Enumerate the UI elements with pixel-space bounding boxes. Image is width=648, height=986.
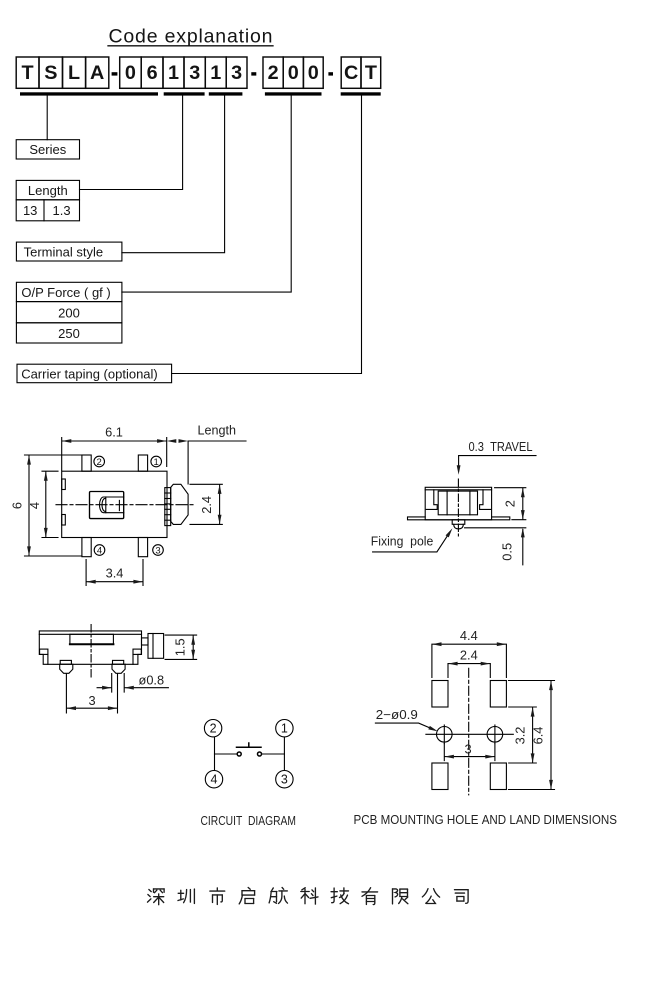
svg-text:0: 0 (308, 62, 319, 84)
code box 0 (283, 57, 303, 88)
svg-text:0.3 TRAVEL: 0.3 TRAVEL (469, 439, 533, 454)
front view inner wall right (132, 654, 134, 664)
terminal dome 1 (60, 660, 73, 673)
top view left wall slot lower (62, 515, 66, 526)
front view knob (142, 634, 164, 659)
dimension 3.2 (509, 707, 537, 763)
switch blade (237, 743, 262, 747)
hole 1 (437, 725, 453, 744)
svg-text:0.5: 0.5 (500, 543, 515, 561)
contact left (237, 752, 241, 756)
circuit pin 3 (276, 771, 293, 788)
svg-text:T: T (22, 62, 34, 84)
pusher outline (90, 492, 124, 519)
code box 3 (226, 57, 247, 88)
terminal pin 4 pad (82, 538, 91, 557)
dimension 6 (10, 455, 83, 556)
dimension 4.4 (432, 628, 507, 678)
svg-text:250: 250 (58, 326, 80, 341)
label Terminal style (16, 242, 122, 261)
code box 2 (263, 57, 283, 88)
code dash separator (251, 72, 256, 75)
svg-text:4.4: 4.4 (460, 628, 478, 643)
svg-text:1: 1 (281, 722, 288, 736)
pin number 3 (153, 545, 164, 557)
dimension 2.4 knob (190, 484, 222, 524)
svg-text:6: 6 (10, 502, 25, 509)
dimension 0.5 (465, 528, 526, 565)
svg-text:200: 200 (58, 305, 80, 320)
svg-text:4: 4 (211, 773, 218, 787)
svg-text:3: 3 (231, 62, 242, 84)
pad top-left (432, 681, 448, 708)
underline bar series (20, 92, 158, 95)
svg-text:A: A (90, 62, 104, 84)
svg-text:4: 4 (97, 545, 102, 556)
wire pin1-pin3 (283, 737, 285, 770)
label 2-diameter 0.9 (375, 707, 438, 733)
table force 250 (16, 323, 122, 343)
label O/P Force (16, 282, 122, 301)
code box S (39, 57, 63, 88)
wire carrier taping (172, 96, 362, 374)
terminal pin 1 pad (138, 455, 147, 471)
svg-text:3: 3 (88, 693, 95, 708)
label Carrier taping (17, 364, 172, 383)
code box 3 (184, 57, 205, 88)
code box 1 (205, 57, 226, 88)
circuit pin 2 (204, 720, 221, 737)
svg-text:2.4: 2.4 (460, 648, 478, 663)
side view left clip (426, 490, 437, 510)
svg-text:Terminal style: Terminal style (24, 245, 103, 260)
svg-text:4: 4 (27, 502, 42, 509)
dimension 2 (495, 488, 526, 520)
dimension 6.4 (509, 681, 555, 790)
wire terminal style (122, 96, 225, 253)
svg-text:CIRCUIT DIAGRAM: CIRCUIT DIAGRAM (201, 813, 297, 828)
pin number 2 (94, 456, 105, 468)
svg-text:2−ø0.9: 2−ø0.9 (376, 707, 418, 722)
svg-text:2: 2 (268, 62, 279, 84)
svg-text:2.4: 2.4 (199, 496, 214, 514)
top view body (62, 471, 167, 537)
svg-text:2: 2 (97, 457, 102, 468)
underline bar terminal style digits (209, 92, 243, 95)
hole centerline horizontal (426, 733, 513, 735)
side view body (425, 487, 491, 520)
fixing pole label (371, 527, 454, 552)
dimension 1.5 (165, 635, 197, 659)
circuit pin 4 (205, 771, 222, 788)
wire O/P force (122, 96, 291, 293)
code dash separator (112, 72, 118, 75)
dimension 2.4 pads (448, 648, 490, 678)
dimension Length (167, 423, 246, 484)
svg-text:13: 13 (23, 203, 37, 218)
front view body (39, 631, 141, 664)
code box T (16, 57, 39, 88)
code dash separator (328, 72, 333, 75)
footer company name (CJK drawn) (148, 888, 469, 905)
svg-text:6.1: 6.1 (105, 424, 123, 439)
pad top-right (490, 681, 506, 708)
front view right foot (133, 649, 141, 654)
wire pin2-pin4 (214, 737, 216, 770)
fixing pole bump (452, 520, 465, 529)
code box A (86, 57, 109, 88)
dimension 6.1 (62, 424, 167, 470)
front view pusher plate (70, 634, 114, 644)
svg-text:Series: Series (29, 142, 66, 157)
dimension 3 (66, 674, 117, 714)
svg-text:2: 2 (502, 500, 517, 507)
svg-text:Code explanation: Code explanation (109, 26, 273, 48)
title Code explanation (108, 26, 273, 48)
label Length (16, 180, 79, 199)
table force 200 (16, 302, 122, 323)
svg-text:ø0.8: ø0.8 (139, 672, 165, 687)
top view centerline (56, 504, 196, 506)
svg-text:C: C (344, 62, 358, 84)
side view right clip (480, 490, 491, 510)
travel leader 0.3 TRAVEL (457, 439, 536, 475)
pusher center tick (118, 500, 120, 510)
pad bottom-right (490, 763, 506, 790)
label Series (16, 140, 79, 159)
code box C (341, 57, 361, 88)
wire series (46, 96, 48, 140)
underline bar carrier taping letters (341, 92, 381, 95)
svg-text:3: 3 (155, 545, 160, 556)
terminal dome 2 (112, 660, 125, 673)
svg-text:1: 1 (154, 457, 159, 468)
svg-text:O/P Force ( gf ): O/P Force ( gf ) (21, 285, 110, 300)
pusher C-shaped groove (100, 497, 124, 513)
side view centerline (457, 479, 459, 536)
code box 0 (120, 57, 142, 88)
wire left to contact (215, 753, 237, 755)
contact right (258, 752, 262, 756)
front view left foot (40, 649, 48, 654)
wire contact to right (262, 753, 285, 755)
svg-text:PCB MOUNTING HOLE AND LAND DIM: PCB MOUNTING HOLE AND LAND DIMENSIONS (354, 812, 618, 827)
hole 2 (487, 725, 503, 744)
svg-text:0: 0 (288, 62, 299, 84)
code box L (63, 57, 86, 88)
svg-text:0: 0 (125, 62, 136, 84)
svg-text:S: S (44, 62, 57, 84)
front view centerline (90, 625, 92, 680)
terminal pin 3 pad (138, 538, 147, 557)
code box 0 (303, 57, 323, 88)
svg-text:1.5: 1.5 (173, 638, 188, 656)
svg-text:T: T (365, 62, 377, 84)
svg-text:6: 6 (147, 62, 158, 84)
dimension 3 holes (444, 741, 495, 760)
svg-text:1.3: 1.3 (53, 203, 71, 218)
terminal pin 2 pad (82, 455, 91, 471)
dimension 3.4 (86, 560, 143, 586)
svg-text:Length: Length (198, 423, 237, 438)
svg-text:3: 3 (281, 773, 288, 787)
svg-text:Carrier taping (optional): Carrier taping (optional) (21, 366, 158, 381)
svg-text:3.4: 3.4 (106, 565, 124, 580)
table length values 13 / 1.3 (16, 200, 79, 221)
code box 6 (141, 57, 163, 88)
side view leads (408, 517, 510, 520)
dimension 4 (27, 471, 58, 537)
side view plunger block (438, 491, 477, 515)
wire length (80, 96, 183, 190)
dimension diameter 0.8 (97, 672, 168, 692)
actuator knob (171, 484, 188, 524)
svg-text:3: 3 (189, 62, 200, 84)
svg-text:3: 3 (464, 741, 471, 756)
pin number 1 (151, 456, 162, 468)
svg-text:Fixing pole: Fixing pole (371, 534, 434, 549)
svg-text:1: 1 (210, 62, 221, 84)
underline bar length digits (164, 92, 205, 95)
actuator spring strip (165, 488, 171, 526)
svg-text:3.2: 3.2 (513, 727, 528, 745)
circuit pin 1 (276, 720, 293, 737)
code box 1 (163, 57, 184, 88)
top view left wall slot upper (62, 479, 66, 490)
svg-text:2: 2 (210, 722, 217, 736)
pad bottom-left (432, 763, 448, 790)
svg-text:L: L (68, 62, 80, 84)
underline bar force digits (265, 92, 322, 95)
svg-text:Length: Length (28, 183, 68, 198)
code box T (361, 57, 381, 88)
svg-text:1: 1 (168, 62, 179, 84)
pcb vertical centerline (468, 668, 470, 795)
front view inner wall left (47, 654, 49, 664)
pin number 4 (94, 545, 105, 557)
